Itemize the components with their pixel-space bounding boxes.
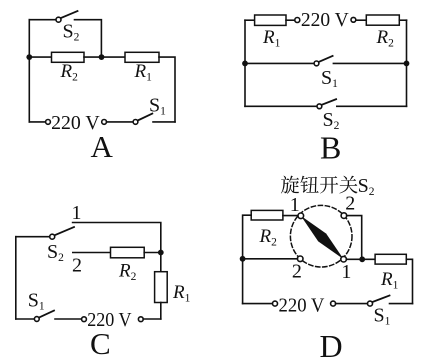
terminal circle A source right xyxy=(102,120,107,125)
resistor R2 (D) xyxy=(251,210,283,220)
wire D bottom right xyxy=(390,303,413,305)
wire C line2 left xyxy=(73,252,111,254)
dashed circle of rotary switch (D) xyxy=(290,205,352,267)
node C junction xyxy=(158,250,164,256)
node B middle-right xyxy=(404,61,410,67)
wire D bottom mid xyxy=(336,303,368,305)
node D mid junction xyxy=(359,256,365,262)
terminal NE 2 (D) xyxy=(341,213,347,219)
resistor R2 (A) xyxy=(52,52,85,62)
terminal circle D source left xyxy=(273,301,278,306)
svg-text:1: 1 xyxy=(72,202,82,224)
switch S2 (B) lever xyxy=(322,99,337,105)
svg-text:220 V: 220 V xyxy=(279,294,325,316)
svg-text:1: 1 xyxy=(290,194,300,216)
wire C bottom left stub xyxy=(16,318,35,320)
terminal circle C source right xyxy=(138,317,143,322)
svg-text:1: 1 xyxy=(341,261,351,283)
terminal circle A source left xyxy=(46,120,51,125)
terminal circle D source right xyxy=(331,301,336,306)
switch S1 (C) pivot xyxy=(34,317,39,322)
wire D R2 right to NW terminal xyxy=(283,215,298,217)
wire A middle right + right vertical xyxy=(159,57,175,122)
resistor R1 (D) xyxy=(375,254,406,264)
wire C line2 right xyxy=(144,252,161,254)
wire B top stub3 xyxy=(356,19,367,21)
wire B top stub2 xyxy=(286,19,295,21)
resistor R1 (A) xyxy=(125,52,159,62)
terminal SW 2 (D) xyxy=(297,256,303,262)
wire B top left stub xyxy=(245,19,255,21)
wire A middle left xyxy=(29,56,51,58)
node D left junction xyxy=(240,256,246,262)
wire D SW terminal to left vertical xyxy=(243,258,298,260)
wire C bottom mid xyxy=(55,318,82,320)
wire A bottom mid xyxy=(107,121,134,123)
switch S1 (D) lever xyxy=(373,296,390,303)
switch S1 (D) pivot xyxy=(368,301,373,306)
wire D NE terminal to right drop xyxy=(347,216,362,260)
switch S2 (C) pivot xyxy=(50,234,55,239)
wire C right vertical lower xyxy=(160,303,162,320)
svg-text:B: B xyxy=(320,130,341,166)
wire A middle center xyxy=(84,56,125,58)
wire D bottom left xyxy=(243,303,273,305)
switch S2 (A) pivot xyxy=(56,17,61,22)
switch S2 (C) lever xyxy=(55,227,74,235)
resistor R2 (C) xyxy=(111,247,145,257)
terminal circle B source right xyxy=(351,17,356,22)
switch S1 (B) pivot xyxy=(314,61,319,66)
wire B top right stub xyxy=(399,19,406,21)
wire C left vertical xyxy=(15,237,17,319)
wire A left vertical xyxy=(28,20,30,122)
wire A bottom left xyxy=(29,121,45,123)
wire B middle right xyxy=(333,62,406,64)
node A-mid junction xyxy=(99,54,105,60)
wire C line1 top xyxy=(73,223,161,272)
svg-text:2: 2 xyxy=(345,193,355,215)
switch S1 (C) lever xyxy=(39,311,54,318)
svg-text:A: A xyxy=(91,129,114,164)
resistor R1 (B) xyxy=(255,15,286,25)
wire B left vertical xyxy=(244,20,246,106)
terminal circle C source left xyxy=(82,317,87,322)
wire B bottom left xyxy=(245,105,317,107)
wire B right vertical xyxy=(406,20,408,106)
switch S2 (A) lever xyxy=(61,11,78,18)
label title rotary switch S2 (D) xyxy=(281,176,358,194)
svg-text:2: 2 xyxy=(292,261,302,283)
rotor pointer (D) xyxy=(301,216,344,259)
resistor R1 (C) xyxy=(155,272,168,303)
switch S1 (A) pivot xyxy=(133,120,138,125)
wire A top right segment xyxy=(75,20,102,57)
wire C from pivot to left vertical xyxy=(16,236,50,238)
switch S1 (A) lever xyxy=(138,114,153,121)
node A-left junction xyxy=(26,54,32,60)
resistor R2 (B) xyxy=(366,15,399,25)
svg-text:C: C xyxy=(90,326,111,361)
wire B middle left xyxy=(245,62,314,64)
svg-text:2: 2 xyxy=(72,255,82,277)
terminal circle B source left xyxy=(295,18,300,23)
switch S1 (B) lever xyxy=(319,56,333,62)
svg-text:D: D xyxy=(320,328,343,364)
wire A bottom right xyxy=(153,121,175,123)
wire A top left segment xyxy=(29,19,56,21)
wire C bottom right xyxy=(143,318,161,320)
wire D R1 right to right vertical xyxy=(406,259,412,303)
switch S2 (B) pivot xyxy=(317,104,322,109)
wire D R2 left to left vertical xyxy=(243,215,252,303)
wire D SE terminal to R1 xyxy=(346,258,375,260)
terminal NW 1 (D) xyxy=(298,213,304,219)
wire B bottom right xyxy=(337,105,407,107)
svg-text:220 V: 220 V xyxy=(301,9,349,31)
terminal SE 1 (D) xyxy=(341,256,347,262)
node B middle-left xyxy=(242,61,248,67)
